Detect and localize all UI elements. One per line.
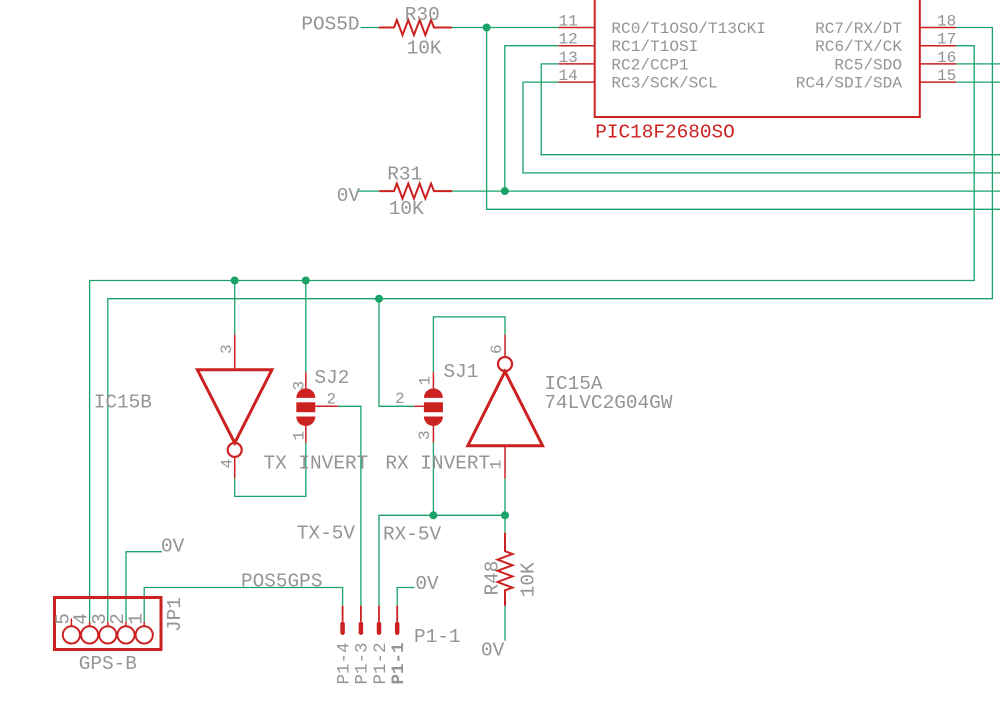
op-amp IC15A input bubble [498,357,512,371]
svg-text:TX-5V: TX-5V [297,523,356,545]
jumper SJ1 bottom pad [424,417,443,427]
wire pin18 RC7/RX/DT route to GPS pin3 [108,28,993,622]
connector JP1 GPS-B body [55,598,162,650]
svg-text:2: 2 [327,391,337,409]
svg-text:11: 11 [559,13,578,31]
svg-text:JP1: JP1 [164,597,186,632]
wire pin16 to edge [956,63,1000,65]
pin 18 stub [920,27,957,29]
svg-text:74LVC2G04GW: 74LVC2G04GW [544,392,672,414]
svg-text:12: 12 [559,31,578,49]
pin 17 stub [920,45,957,47]
wire SJ1 pin2 from row 298 [379,299,414,407]
svg-text:17: 17 [937,31,956,49]
wire IC15A output down [504,479,506,516]
wire IC15B input from row 280 [234,281,236,335]
svg-text:6: 6 [488,344,506,354]
svg-text:P1-1: P1-1 [389,642,409,684]
jumper SJ1 top pad [424,388,443,398]
svg-text:0V: 0V [415,573,439,595]
pin P1-4 [342,606,344,622]
pin 6 stub of IC15A [504,335,506,357]
svg-text:R31: R31 [387,163,422,185]
svg-text:16: 16 [937,49,956,67]
wire SJ2 pin2 TX-5V to P1-3 [338,406,361,605]
svg-text:4: 4 [219,459,237,469]
svg-text:1: 1 [417,376,435,386]
svg-text:3: 3 [218,344,236,354]
node junction RX-5V/SJ1pin3 [429,511,437,519]
svg-text:RC0/T1OSO/T13CKI: RC0/T1OSO/T13CKI [611,20,766,38]
node junction R31/pin12 [501,187,509,195]
pin 3 stub of JP1 [107,622,109,627]
svg-text:RC6/TX/CK: RC6/TX/CK [815,38,902,56]
wire pin12 to drop x504.8 [505,46,559,191]
svg-text:3: 3 [291,381,309,391]
wire R31 right to canvas edge [452,190,1000,192]
svg-text:GPS-B: GPS-B [79,653,137,675]
resistor R30 [379,20,452,35]
pin 1 stub of JP1 [143,622,145,627]
pin circle 3 [99,626,116,643]
pin P1-2 [378,606,380,622]
svg-text:POS5D: POS5D [301,13,359,35]
wire R30 to pin11 [452,27,559,29]
svg-text:SJ1: SJ1 [444,361,479,383]
wire R48 top [504,515,506,533]
pin 12 stub [559,45,595,47]
svg-text:10K: 10K [389,198,424,220]
wire GPS pin2 0V [126,552,162,622]
wire SJ1 pin1 to IC15A input [433,317,505,372]
op-amp IC15A inverter triangle [468,372,543,446]
svg-text:RC7/RX/DT: RC7/RX/DT [815,20,902,38]
svg-text:SJ2: SJ2 [315,367,350,389]
svg-text:RC5/SDO: RC5/SDO [834,56,902,74]
resistor R31 [379,184,452,199]
svg-text:10K: 10K [518,562,540,597]
wire pin17 RC6/TX/CK route to GPS pin4 [90,46,975,622]
svg-text:0V: 0V [337,185,361,207]
node junction R30/pin11 [483,24,491,32]
jumper SJ2 top pad [296,388,315,398]
pin circle 4 [81,626,98,643]
svg-text:10K: 10K [407,38,442,60]
svg-text:RC3/SCK/SCL: RC3/SCK/SCL [611,75,717,93]
svg-text:13: 13 [559,49,578,67]
pin 14 stub [559,81,595,83]
pin P1-3 [360,606,362,622]
jumper SJ2 pin2 stub [315,405,338,407]
wire 0V to R31 [357,190,379,192]
svg-text:R48: R48 [481,561,503,596]
svg-text:R30: R30 [405,4,440,26]
pin P1-1 [396,606,398,622]
op-amp U1 PIC18F2680SO body [595,0,920,117]
resistor R48 [498,533,513,606]
pin circle 1 [136,626,153,643]
op-amp IC15B output bubble [228,443,242,457]
svg-text:0V: 0V [481,639,505,661]
svg-text:3: 3 [416,430,434,440]
jumper SJ1 pin2 stub [414,405,424,407]
svg-text:P1-1: P1-1 [414,626,461,648]
wire net POS5D vertical drop to row 209 [487,28,1000,210]
svg-text:2: 2 [395,390,405,408]
wire POS5D to R30 [361,27,379,29]
jumper SJ2 bottom pad [296,417,315,427]
pin 2 stub of JP1 [125,622,127,627]
pin 11 stub [559,27,595,29]
jumper SJ1 pin3 stub [432,426,434,443]
svg-text:TX INVERT: TX INVERT [264,452,369,474]
jumper SJ2 pin3 stub [305,372,307,388]
svg-text:RX-5V: RX-5V [383,523,442,545]
pin 15 stub [920,81,957,83]
wire SJ2 pin3 from row 280 [305,281,307,373]
pin 5 stub of JP1 [70,619,72,627]
jumper SJ2 pin1 stub [305,426,307,443]
svg-text:POS5GPS: POS5GPS [241,570,322,592]
svg-text:1: 1 [488,460,506,470]
op-amp IC15B inverter triangle [197,370,272,443]
svg-text:P1-2: P1-2 [371,642,391,684]
node junction row280/IC15B [231,277,239,285]
svg-text:15: 15 [937,67,956,85]
node junction RX-5V/R48 [501,511,509,519]
jumper SJ1 middle bar [424,402,443,412]
wire R48 bottom to 0V [504,606,506,641]
svg-text:1: 1 [291,431,309,441]
svg-text:0V: 0V [161,535,185,557]
wire P1-1 0V [397,588,414,606]
pin circle 2 [117,626,134,643]
pin circle 5 [63,626,80,643]
pin 13 stub [559,63,595,65]
svg-text:PIC18F2680SO: PIC18F2680SO [595,122,735,144]
wire RX-5V row to P1-2 [379,515,505,605]
pin 4 stub of IC15B [234,457,236,478]
wire pin14 route [523,82,1000,173]
svg-text:IC15B: IC15B [94,391,152,413]
transistor IC15B inverter pin3 stub [234,335,236,370]
pin 16 stub [920,63,957,65]
svg-text:RC4/SDI/SDA: RC4/SDI/SDA [796,75,903,93]
svg-text:18: 18 [937,13,956,31]
svg-text:RX INVERT: RX INVERT [385,452,490,474]
wire pin15 to edge [956,81,1000,83]
jumper SJ1 pin1 stub [432,372,434,388]
wire GPS pin1 POS5GPS to P1-4 [144,588,342,622]
jumper SJ2 middle bar [296,402,315,412]
wire SJ1 pin3 to RX-5V row [432,442,434,515]
node junction row280/SJ2 [302,277,310,285]
svg-text:RC1/T1OSI: RC1/T1OSI [611,38,698,56]
pin 1 stub of IC15A [504,446,506,479]
svg-text:RC2/CCP1: RC2/CCP1 [611,56,688,74]
svg-text:P1-3: P1-3 [353,642,373,684]
wire IC15B output to SJ2 pin1 [235,442,306,496]
svg-text:14: 14 [559,67,578,85]
pin 4 stub of JP1 [89,622,91,627]
svg-text:1: 1 [125,613,147,625]
node junction row298/SJ1 [375,295,383,303]
svg-text:P1-4: P1-4 [334,642,354,684]
wire pin13 route [541,64,1000,155]
